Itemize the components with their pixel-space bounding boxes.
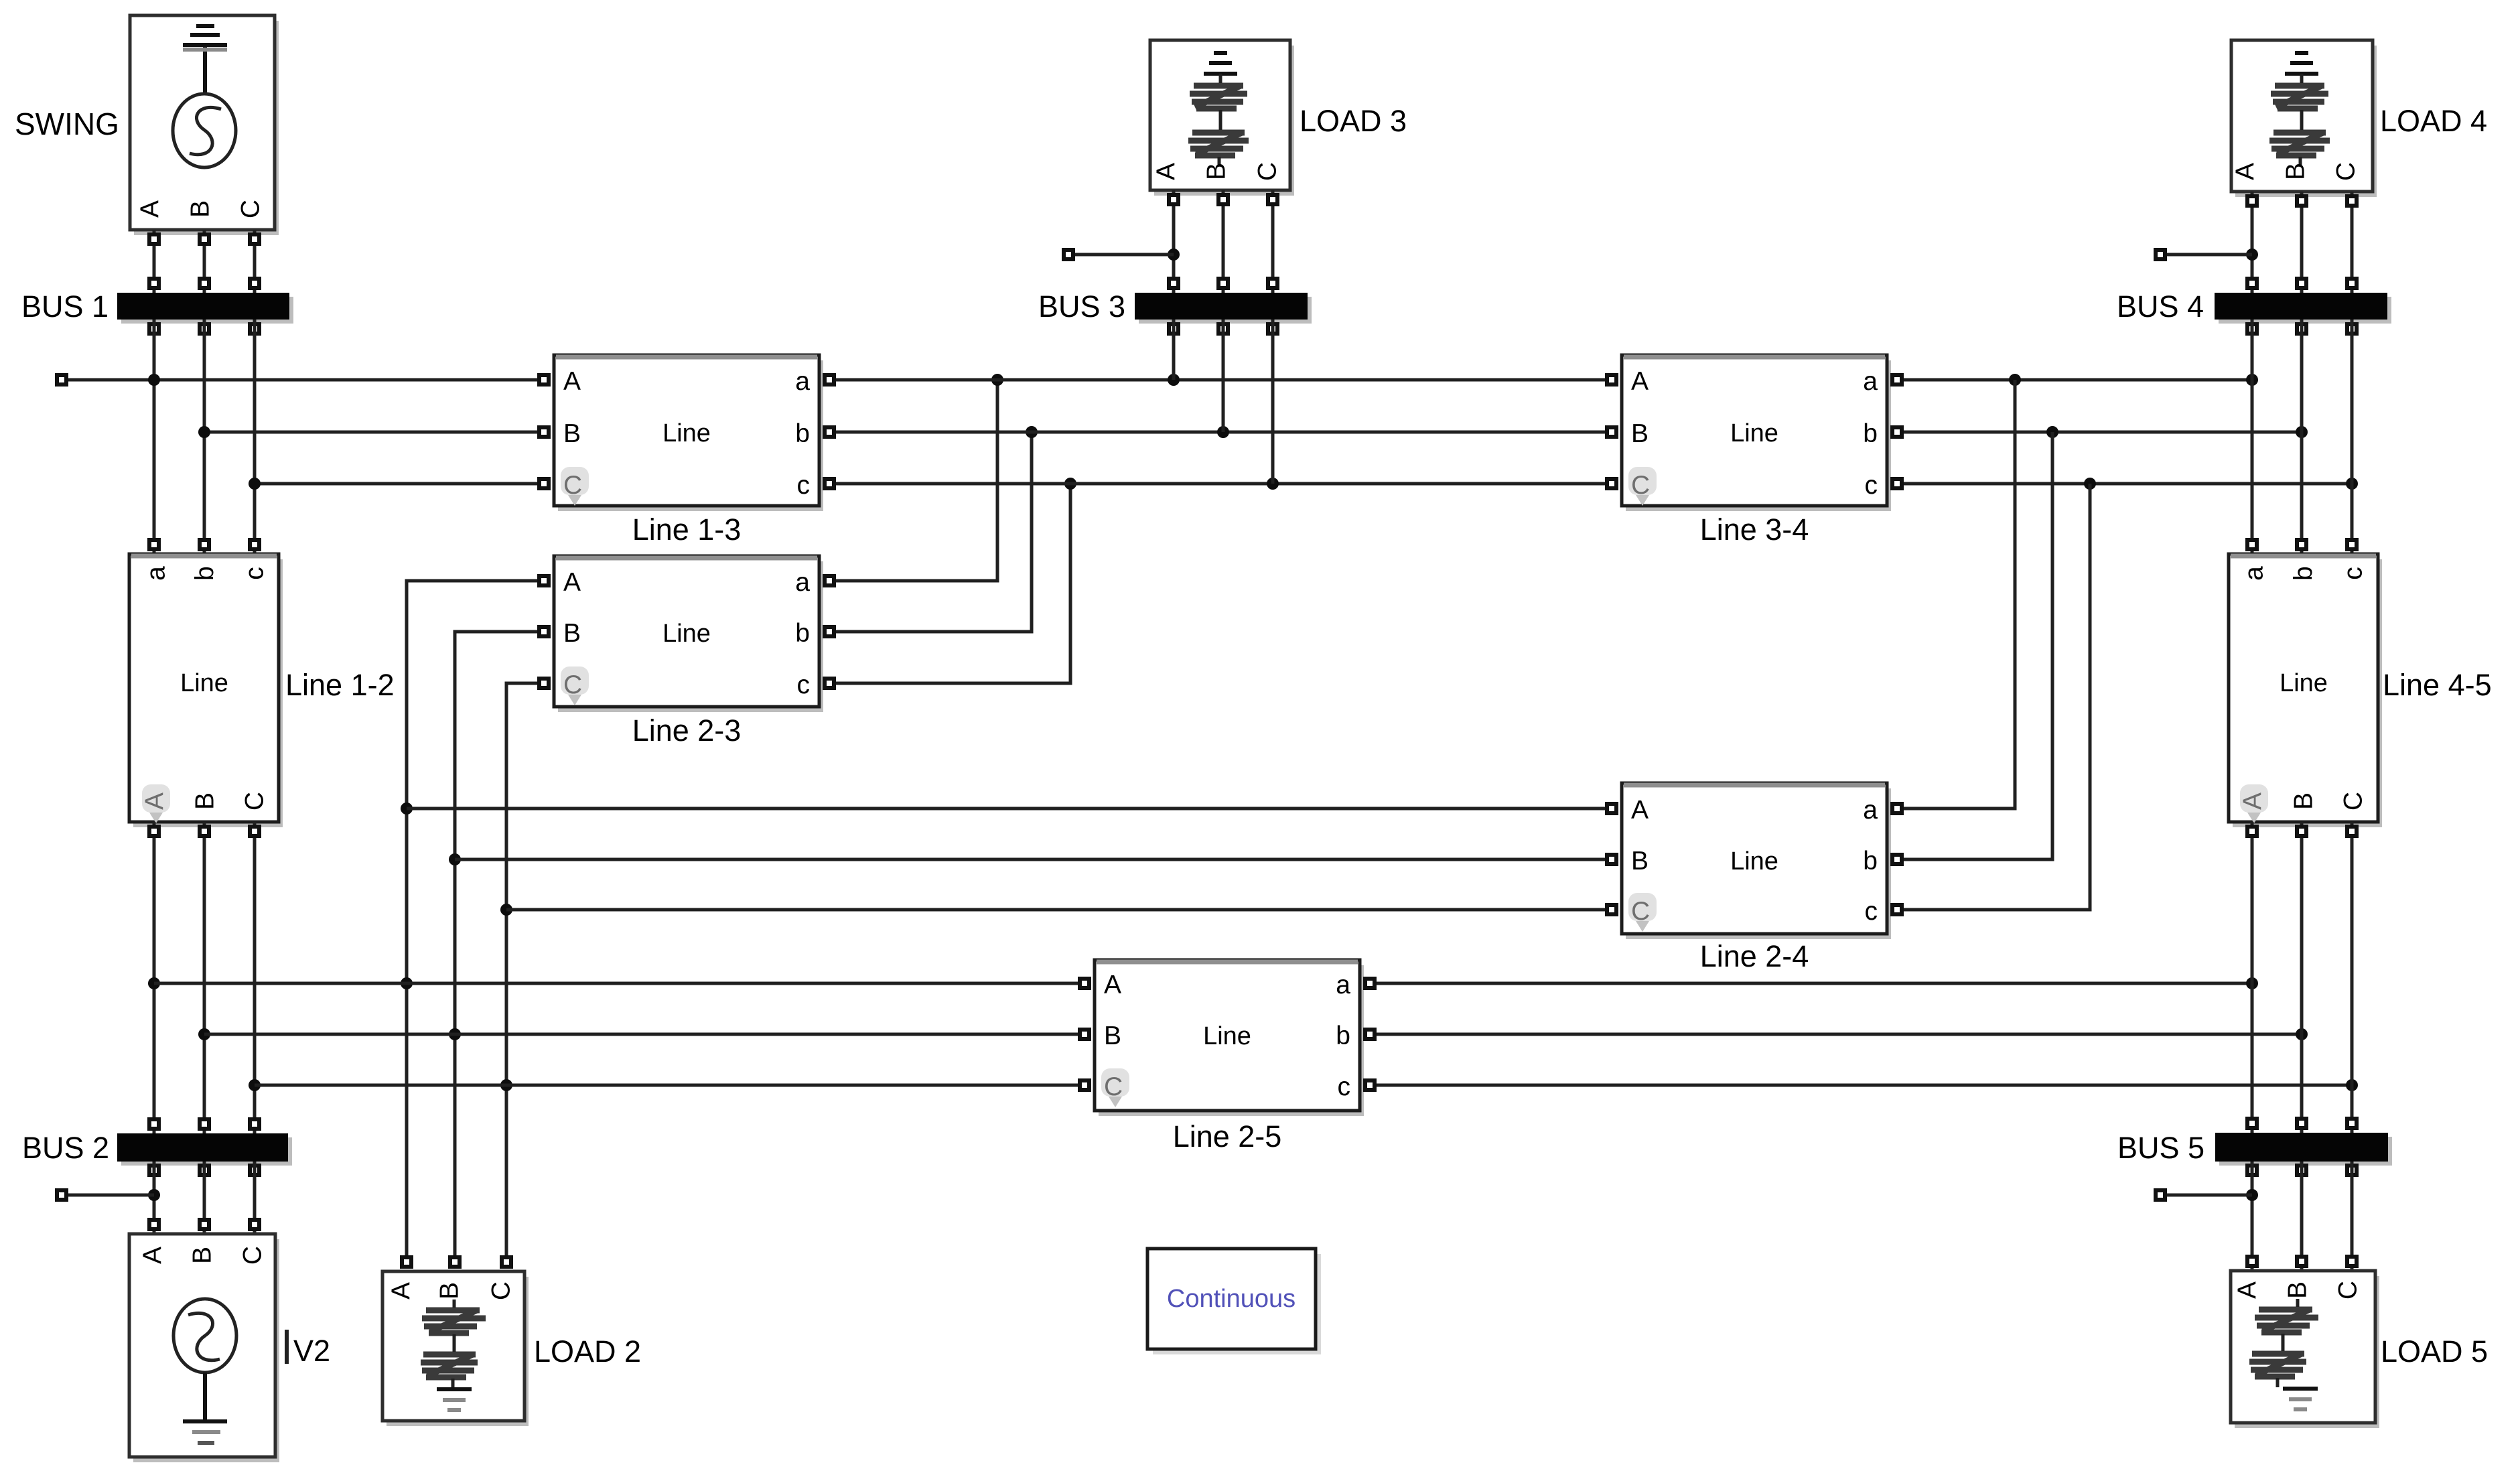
wire BUS5 phase A down to LOAD5 bbox=[2246, 1162, 2258, 1271]
svg-text:B: B bbox=[2282, 163, 2310, 180]
load block LOAD 2 bbox=[382, 1271, 529, 1426]
stub terminal near BUS4 bbox=[2156, 250, 2252, 259]
svg-text:b: b bbox=[2290, 566, 2318, 581]
stub terminal near BUS5 bbox=[2156, 1190, 2252, 1200]
load block LOAD 3 bbox=[1150, 40, 1294, 196]
wire SWING A to BUS1 bbox=[149, 230, 159, 293]
svg-text:c: c bbox=[1865, 471, 1878, 500]
wire BUS3 phase C down to row C bbox=[1271, 320, 1275, 484]
svg-text:BUS 4: BUS 4 bbox=[2117, 289, 2204, 324]
svg-text:a: a bbox=[1863, 796, 1878, 825]
bus bar BUS 1 bbox=[117, 293, 293, 334]
wire Line 4-5 port C down to BUS5 bbox=[2347, 822, 2357, 1133]
wire Line 1-2 port C down to BUS2 bbox=[249, 822, 261, 1133]
wire row A from BUS1 to Line 1-3 port A bbox=[148, 374, 549, 386]
svg-text:BUS 5: BUS 5 bbox=[2117, 1131, 2204, 1165]
svg-text:B: B bbox=[1104, 1022, 1121, 1050]
svg-text:Line: Line bbox=[2280, 669, 2328, 697]
wire Line 2-4 output b riser to row B bbox=[1892, 432, 2052, 864]
wire BUS3 phase A down to row A bbox=[1172, 320, 1176, 380]
wire row from BUS2 column to Line 2-5 port C bbox=[255, 1080, 1089, 1090]
wire row A from Line 1-3 output a to Line 3-4 port A bbox=[825, 374, 1616, 386]
wire Line 4-5 port B down to BUS5 bbox=[2297, 822, 2306, 1133]
wire LOAD3 A to BUS3 bbox=[1168, 190, 1180, 293]
svg-text:a: a bbox=[795, 367, 810, 396]
wire Line 2-3 port A to LOAD2 phase A column bbox=[401, 576, 549, 1267]
svg-text:B: B bbox=[435, 1282, 464, 1300]
svg-text:A: A bbox=[1152, 163, 1181, 180]
svg-text:V2: V2 bbox=[293, 1334, 330, 1368]
line block Line 2-4 bbox=[1622, 783, 1891, 939]
wire row B from BUS1 to Line 1-3 port B bbox=[198, 426, 549, 438]
svg-text:B: B bbox=[563, 419, 581, 448]
line block Line 1-2 (vertical) bbox=[129, 554, 283, 827]
svg-text:A: A bbox=[1631, 796, 1649, 825]
wire BUS2 phase C down to V2 bbox=[250, 1162, 259, 1234]
svg-text:a: a bbox=[142, 566, 171, 581]
ground (flipped) inside SWING bbox=[183, 26, 227, 94]
svg-text:c: c bbox=[1338, 1072, 1351, 1101]
series coil branch in LOAD 2 bbox=[453, 1300, 454, 1388]
svg-text:c: c bbox=[797, 471, 811, 500]
wire BUS3 phase B down to row B bbox=[1222, 320, 1225, 432]
svg-text:b: b bbox=[191, 566, 220, 581]
wire Line 1-2 port B down to BUS2 bbox=[198, 822, 210, 1133]
svg-text:b: b bbox=[1863, 847, 1878, 875]
wire BUS1 phase B down to Line 1-2 port b bbox=[200, 320, 209, 554]
svg-text:Line 3-4: Line 3-4 bbox=[1700, 512, 1809, 547]
wire BUS4 phase B down to Line 4-5 port b bbox=[2297, 320, 2306, 554]
svg-text:Continuous: Continuous bbox=[1167, 1285, 1296, 1313]
wire Line 2-5 output b to BUS5 column bbox=[1365, 1028, 2308, 1040]
svg-text:Line: Line bbox=[1730, 419, 1778, 447]
wire Line 2-3 port C to LOAD2 phase C column bbox=[500, 679, 549, 1267]
svg-text:Line 2-3: Line 2-3 bbox=[632, 713, 742, 748]
svg-text:LOAD 4: LOAD 4 bbox=[2380, 104, 2487, 138]
line block Line 4-5 (vertical) bbox=[2229, 554, 2382, 827]
bus bar BUS 2 bbox=[117, 1133, 292, 1175]
wire BUS4 phase C down to Line 4-5 port c bbox=[2347, 320, 2357, 554]
svg-text:a: a bbox=[1863, 367, 1878, 396]
wire BUS2 phase A down to V2 bbox=[148, 1162, 160, 1234]
wire row A from Line 3-4 output a to BUS4 column bbox=[1892, 374, 2258, 386]
series coil branch in LOAD 5 bbox=[2278, 1299, 2298, 1387]
wire BUS5 phase B down to LOAD5 bbox=[2297, 1162, 2306, 1271]
svg-text:b: b bbox=[1336, 1022, 1350, 1050]
wire row from BUS2 column to Line 2-5 port A bbox=[154, 979, 1089, 988]
svg-text:SWING: SWING bbox=[15, 107, 119, 141]
svg-text:c: c bbox=[240, 567, 269, 580]
bus bar BUS 3 bbox=[1135, 293, 1312, 334]
svg-text:A: A bbox=[1104, 971, 1121, 999]
wire LOAD4 A to BUS4 bbox=[2246, 192, 2258, 293]
wire row C from Line 3-4 output c to BUS4 column bbox=[1892, 478, 2358, 490]
svg-text:BUS 1: BUS 1 bbox=[21, 289, 109, 324]
svg-text:LOAD 2: LOAD 2 bbox=[534, 1334, 641, 1369]
svg-text:A: A bbox=[563, 367, 581, 396]
wire SWING C to BUS1 bbox=[250, 230, 259, 293]
svg-text:a: a bbox=[2240, 566, 2269, 581]
wire Line 2-3 port B to LOAD2 phase B column bbox=[449, 627, 549, 1267]
svg-text:a: a bbox=[795, 568, 810, 597]
wire LOAD3 C to BUS3 bbox=[1268, 190, 1277, 293]
svg-text:BUS 3: BUS 3 bbox=[1038, 289, 1125, 324]
svg-text:Line: Line bbox=[662, 419, 711, 447]
svg-text:A: A bbox=[2231, 163, 2260, 180]
svg-text:B: B bbox=[188, 1247, 217, 1264]
ground (flipped) inside LOAD 4 bbox=[2285, 53, 2318, 74]
line block Line 2-3 bbox=[554, 556, 823, 712]
source block SWING bbox=[130, 15, 279, 235]
svg-text:c: c bbox=[1865, 897, 1878, 926]
svg-text:Line: Line bbox=[180, 669, 228, 697]
svg-text:B: B bbox=[1631, 847, 1649, 875]
svg-text:A: A bbox=[2233, 1281, 2262, 1299]
svg-text:A: A bbox=[136, 200, 165, 218]
wire BUS4 phase A down to Line 4-5 port a bbox=[2247, 320, 2257, 554]
load block LOAD 5 bbox=[2231, 1271, 2379, 1428]
stub terminal near BUS2 bbox=[57, 1190, 154, 1200]
wire row to Line 2-4 port C bbox=[506, 905, 1616, 914]
svg-text:C: C bbox=[2332, 162, 2361, 181]
svg-text:LOAD 3: LOAD 3 bbox=[1300, 104, 1407, 138]
wire LOAD4 B to BUS4 bbox=[2297, 192, 2306, 293]
wire Line 2-5 output c to BUS5 column bbox=[1365, 1079, 2358, 1091]
svg-text:Line 2-5: Line 2-5 bbox=[1173, 1119, 1282, 1153]
svg-text:Line: Line bbox=[1203, 1022, 1251, 1050]
wire row to Line 2-4 port A bbox=[407, 804, 1616, 813]
wire BUS2 phase B down to V2 bbox=[200, 1162, 209, 1234]
svg-text:Line 4-5: Line 4-5 bbox=[2383, 668, 2492, 702]
svg-text:a: a bbox=[1336, 971, 1350, 999]
svg-text:b: b bbox=[1863, 419, 1878, 448]
ground inside V2 bbox=[183, 1373, 227, 1421]
wire row to Line 2-4 port B bbox=[455, 855, 1616, 864]
stub terminal near BUS3 bbox=[1064, 250, 1174, 259]
wire Line 1-2 port A down to BUS2 bbox=[148, 822, 160, 1133]
line block Line 2-5 bbox=[1095, 960, 1364, 1116]
svg-text:BUS 2: BUS 2 bbox=[22, 1131, 109, 1165]
wire LOAD3 B to BUS3 bbox=[1218, 190, 1228, 293]
wire Line 2-3 output c riser to row C bbox=[825, 478, 1076, 688]
series coil branch in LOAD 4 bbox=[2300, 74, 2302, 165]
line block Line 1-3 bbox=[554, 355, 823, 511]
wire Line 2-4 output c riser to row C bbox=[1892, 484, 2090, 914]
stub terminal on row A near BUS1 bbox=[57, 375, 154, 384]
svg-text:B: B bbox=[191, 792, 220, 810]
bus bar BUS 5 bbox=[2215, 1133, 2392, 1175]
source block V2 bbox=[129, 1234, 279, 1462]
svg-text:C: C bbox=[2334, 1281, 2363, 1300]
wire row C from Line 1-3 output c to Line 3-4 port C bbox=[825, 478, 1616, 490]
wire BUS5 phase C down to LOAD5 bbox=[2347, 1162, 2357, 1271]
wire BUS1 phase C down to Line 1-2 port c bbox=[250, 320, 259, 554]
line block Line 3-4 bbox=[1622, 355, 1891, 511]
svg-text:B: B bbox=[1631, 419, 1649, 448]
wire BUS1 phase A down to Line 1-2 port a bbox=[149, 320, 159, 554]
svg-text:A: A bbox=[563, 568, 581, 597]
svg-text:Line: Line bbox=[1730, 847, 1778, 875]
wire Line 2-3 output b riser to row B bbox=[825, 426, 1038, 636]
svg-text:B: B bbox=[1202, 163, 1231, 180]
svg-text:A: A bbox=[139, 1247, 167, 1264]
svg-text:Line: Line bbox=[662, 620, 711, 648]
svg-text:C: C bbox=[240, 792, 269, 811]
svg-text:A: A bbox=[1631, 367, 1649, 396]
svg-text:c: c bbox=[2339, 567, 2368, 580]
svg-text:B: B bbox=[186, 200, 215, 218]
svg-text:C: C bbox=[1253, 162, 1282, 181]
svg-text:A: A bbox=[387, 1282, 416, 1300]
wire row B from Line 1-3 output b to Line 3-4 port B bbox=[825, 426, 1616, 438]
label V2 bbox=[287, 1330, 330, 1368]
AC source symbol in SWING bbox=[173, 94, 236, 167]
wire LOAD4 C to BUS4 bbox=[2347, 192, 2357, 293]
powergui block Continuous bbox=[1147, 1249, 1321, 1354]
wire Line 4-5 port A down to BUS5 bbox=[2247, 822, 2257, 1133]
wire Line 2-4 output a riser to row A bbox=[1892, 380, 2015, 813]
svg-text:c: c bbox=[797, 671, 811, 699]
svg-text:Line 1-2: Line 1-2 bbox=[285, 668, 395, 702]
svg-text:b: b bbox=[795, 419, 810, 448]
svg-text:Line 2-4: Line 2-4 bbox=[1700, 939, 1809, 973]
wire row B from Line 3-4 output b to BUS4 column bbox=[1892, 426, 2308, 438]
ground inside LOAD 5 bbox=[2283, 1387, 2318, 1391]
series coil branch in LOAD 3 bbox=[1219, 74, 1220, 165]
wire SWING B to BUS1 bbox=[200, 230, 209, 293]
wire Line 2-3 output a riser to row A bbox=[825, 374, 1003, 585]
svg-text:B: B bbox=[2284, 1281, 2312, 1299]
svg-text:Line 1-3: Line 1-3 bbox=[632, 512, 742, 547]
svg-text:C: C bbox=[236, 200, 265, 218]
svg-text:C: C bbox=[2339, 792, 2368, 811]
AC source symbol in V2 bbox=[173, 1299, 236, 1373]
svg-text:B: B bbox=[563, 619, 581, 648]
wire row from BUS2 column to Line 2-5 port B bbox=[204, 1030, 1089, 1039]
svg-text:C: C bbox=[487, 1281, 516, 1300]
ground (flipped) inside LOAD 3 bbox=[1204, 53, 1237, 74]
bus bar BUS 4 bbox=[2215, 293, 2391, 334]
svg-text:LOAD 5: LOAD 5 bbox=[2381, 1334, 2488, 1369]
load block LOAD 4 bbox=[2231, 40, 2377, 197]
ground inside LOAD 2 bbox=[437, 1387, 472, 1391]
wire row C from BUS1 to Line 1-3 port C bbox=[249, 478, 549, 490]
svg-text:B: B bbox=[2290, 792, 2318, 810]
wire Line 2-5 output a to BUS5 column bbox=[1365, 977, 2258, 989]
svg-text:b: b bbox=[795, 619, 810, 648]
svg-text:C: C bbox=[238, 1246, 267, 1265]
